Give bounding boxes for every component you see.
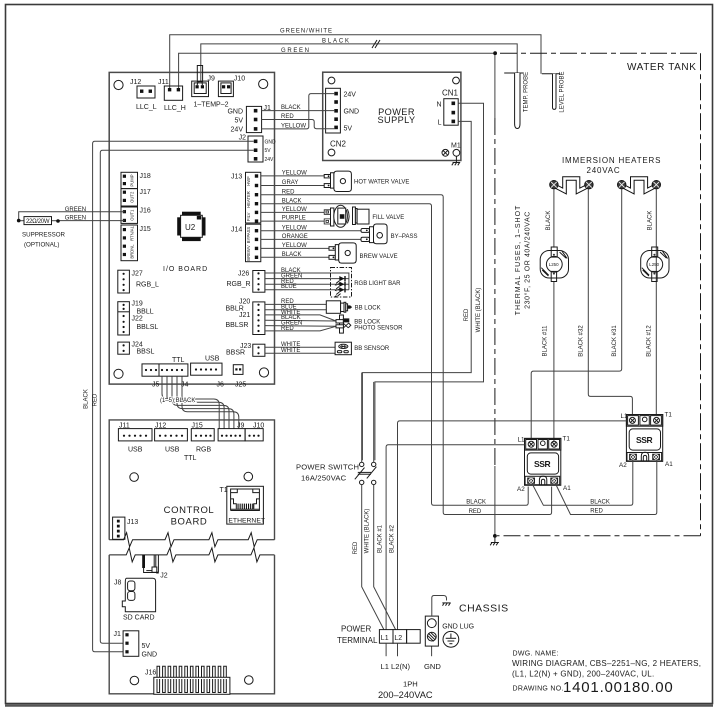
svg-text:BB SENSOR: BB SENSOR [354,346,390,352]
svg-text:J17: J17 [140,189,151,196]
svg-text:WHITE (BLACK): WHITE (BLACK) [476,288,482,333]
svg-text:GREEN: GREEN [281,48,309,54]
svg-text:BY–PASS: BY–PASS [391,234,418,240]
svg-text:GND: GND [424,662,441,671]
svg-text:L250: L250 [649,262,659,267]
svg-text:BLACK #11: BLACK #11 [542,325,548,357]
svg-text:A2: A2 [619,462,627,469]
svg-text:BLACK: BLACK [590,500,610,506]
svg-text:OUT2: OUT2 [130,191,135,203]
svg-text:BLACK #1: BLACK #1 [378,524,384,553]
svg-text:RGB: RGB [196,447,212,454]
svg-text:240VAC: 240VAC [587,166,621,175]
svg-text:5V: 5V [344,125,353,132]
svg-text:J21: J21 [239,312,250,319]
svg-text:YELLOW: YELLOW [282,225,307,231]
svg-text:DRAWING NO.: DRAWING NO. [513,686,564,693]
svg-text:U2: U2 [185,223,196,232]
svg-text:J5: J5 [152,382,160,389]
svg-text:PUMP: PUMP [130,174,135,186]
svg-text:GND: GND [344,109,360,116]
svg-text:24V: 24V [265,157,275,163]
svg-text:HOT WATER VALVE: HOT WATER VALVE [354,180,409,186]
svg-text:GREEN: GREEN [65,207,86,213]
svg-text:J19: J19 [132,301,143,308]
svg-text:RED: RED [281,114,294,120]
svg-text:J26: J26 [238,271,249,278]
svg-text:CN1: CN1 [442,89,459,98]
svg-text:SD CARD: SD CARD [123,615,155,622]
svg-text:HWF: HWF [246,176,251,186]
svg-text:RGB LIGHT BAR: RGB LIGHT BAR [354,281,401,287]
svg-text:J6: J6 [217,382,225,389]
svg-text:WATER TANK: WATER TANK [627,62,697,73]
svg-text:LEVEL PROBE: LEVEL PROBE [560,71,566,112]
svg-text:CHASSIS: CHASSIS [459,603,509,615]
svg-text:L: L [438,119,442,126]
svg-text:ORANGE: ORANGE [282,234,308,240]
svg-text:24V: 24V [344,91,357,98]
svg-text:RGB_R: RGB_R [227,281,251,288]
svg-text:RED: RED [93,393,99,406]
svg-text:RED: RED [281,326,294,332]
svg-text:16A/250VAC: 16A/250VAC [301,474,347,483]
svg-text:WHITE (BLACK): WHITE (BLACK) [364,509,370,554]
svg-text:GRAY: GRAY [282,180,299,186]
svg-text:BLACK: BLACK [466,500,486,506]
svg-text:TTL: TTL [184,455,197,462]
svg-text:GND: GND [142,651,158,658]
svg-text:FILL VALVE: FILL VALVE [372,215,404,221]
svg-text:PHOTO SENSOR: PHOTO SENSOR [354,326,403,332]
svg-text:BLACK #2: BLACK #2 [389,524,395,553]
svg-text:J25: J25 [235,382,246,389]
svg-text:YELLOW: YELLOW [281,123,306,129]
svg-text:L1: L1 [621,413,629,420]
svg-text:RED: RED [469,509,482,515]
svg-text:T1: T1 [665,412,673,419]
svg-text:BLACK #31: BLACK #31 [612,325,618,357]
svg-text:BBLSR: BBLSR [226,322,249,329]
svg-text:J8: J8 [114,580,122,587]
svg-text:J13: J13 [127,519,138,526]
svg-text:PURPLE: PURPLE [282,216,306,222]
svg-text:5V: 5V [265,148,272,154]
svg-text:J16: J16 [140,208,151,215]
svg-text:GREEN/WHITE: GREEN/WHITE [280,29,332,35]
svg-text:LLC_L: LLC_L [136,104,157,111]
svg-text:J27: J27 [132,271,143,278]
svg-text:USB: USB [128,447,143,454]
svg-text:BB LOCK: BB LOCK [355,306,381,312]
svg-text:RTN/AL: RTN/AL [130,225,135,240]
svg-text:WIRING DIAGRAM, CBS–2251–NG,: WIRING DIAGRAM, CBS–2251–NG, 2 HEATERS, [512,659,701,668]
svg-text:L1: L1 [518,437,526,444]
svg-text:(OPTIONAL): (OPTIONAL) [24,241,59,248]
svg-text:BLACK: BLACK [84,389,90,409]
svg-text:GND LUG: GND LUG [442,623,474,630]
svg-text:J10: J10 [234,76,245,83]
svg-text:SSR: SSR [534,459,551,469]
svg-text:24V: 24V [231,127,244,134]
svg-text:POWER SWITCH: POWER SWITCH [296,463,359,472]
svg-text:J24: J24 [132,342,143,349]
svg-text:OUT1: OUT1 [130,209,135,221]
svg-text:HEATER: HEATER [246,191,251,208]
svg-text:J1: J1 [114,631,122,638]
svg-text:1–TEMP–2: 1–TEMP–2 [194,102,229,109]
svg-text:A1: A1 [665,461,673,468]
svg-text:J11: J11 [158,79,169,86]
svg-text:200–240VAC: 200–240VAC [378,690,433,700]
svg-text:(1–5) BLACK: (1–5) BLACK [160,398,195,404]
svg-text:RED: RED [590,509,603,515]
svg-text:POWER: POWER [341,625,371,634]
svg-text:BBLSL: BBLSL [137,324,159,331]
svg-text:CN2: CN2 [330,140,347,149]
svg-text:RED: RED [282,189,295,195]
svg-text:TTL: TTL [172,357,185,364]
svg-text:WHITE: WHITE [281,348,300,354]
svg-text:USB: USB [165,447,180,454]
svg-text:L2: L2 [394,635,402,642]
svg-text:BLACK #12: BLACK #12 [647,325,653,357]
svg-text:GREEN: GREEN [65,215,86,221]
svg-text:M1: M1 [451,143,461,150]
svg-text:RED: RED [353,541,359,554]
svg-text:ETHERNET: ETHERNET [228,517,265,524]
svg-text:L250: L250 [549,262,559,267]
svg-text:J12: J12 [130,79,141,86]
svg-text:J2: J2 [160,573,168,580]
svg-text:1401.00180.00: 1401.00180.00 [563,679,674,696]
svg-text:BLUE: BLUE [281,284,297,290]
svg-text:FILV: FILV [246,212,251,221]
svg-text:YELLOW: YELLOW [282,207,307,213]
svg-text:BLACK #32: BLACK #32 [579,325,585,357]
svg-text:SSR: SSR [636,435,653,445]
svg-text:5V: 5V [234,118,243,125]
svg-text:22Ω/20W: 22Ω/20W [26,219,50,225]
svg-text:THERMAL FUSES, 1–SHOT: THERMAL FUSES, 1–SHOT [515,205,522,316]
svg-text:A2: A2 [517,486,525,493]
svg-text:RED: RED [464,308,470,321]
svg-text:DWG. NAME:: DWG. NAME: [513,651,559,658]
svg-text:N: N [436,101,441,108]
svg-text:(L1, L2(N) + GND), 200–240: (L1, L2(N) + GND), 200–240VAC, UL. [512,670,654,679]
svg-text:BLACK: BLACK [281,105,301,111]
svg-text:GND: GND [265,139,277,145]
svg-text:BLACK: BLACK [546,211,552,231]
svg-text:1PH: 1PH [403,680,418,689]
svg-text:J18: J18 [140,173,151,180]
svg-text:GND: GND [227,109,243,116]
svg-text:J22: J22 [132,316,143,323]
svg-text:BLACK: BLACK [282,252,302,258]
svg-text:T1: T1 [563,436,571,443]
svg-text:TEMP. PROBE: TEMP. PROBE [524,72,530,112]
svg-text:SUPPLY: SUPPLY [378,115,416,125]
svg-text:CONTROL: CONTROL [164,505,215,516]
svg-text:L1: L1 [381,635,389,642]
svg-text:YELLOW: YELLOW [282,243,307,249]
svg-text:L1 L2(N): L1 L2(N) [381,662,411,671]
svg-text:5V: 5V [142,643,151,650]
svg-text:J14: J14 [231,227,242,234]
svg-text:A1: A1 [563,485,571,492]
svg-text:J16: J16 [145,670,156,677]
svg-text:USB: USB [205,356,220,363]
svg-text:230°F, 25 OR 40A/240VAC: 230°F, 25 OR 40A/240VAC [524,211,532,309]
svg-text:YELLOW: YELLOW [282,171,307,177]
svg-text:LLC_H: LLC_H [164,105,186,112]
svg-text:BOARD: BOARD [171,516,208,527]
svg-text:BREWV: BREWV [246,245,251,261]
svg-text:I/O BOARD: I/O BOARD [163,266,208,273]
svg-text:RGB_L: RGB_L [136,282,159,289]
svg-text:J20: J20 [239,299,250,306]
svg-text:BLACK: BLACK [282,198,302,204]
svg-text:BBSR: BBSR [226,350,245,357]
svg-text:BRDNL: BRDNL [130,244,135,259]
svg-text:BBLL: BBLL [137,309,154,316]
svg-text:BBSL: BBSL [137,349,155,356]
svg-text:J13: J13 [231,174,242,181]
svg-text:IMMERSION HEATERS: IMMERSION HEATERS [562,156,661,165]
svg-text:BREW VALVE: BREW VALVE [360,254,398,260]
svg-text:BYPASS: BYPASS [246,227,251,244]
svg-text:SUPPRESSOR: SUPPRESSOR [22,231,66,238]
svg-text:TERMINAL: TERMINAL [337,636,378,645]
svg-text:J2: J2 [239,135,247,142]
svg-text:J15: J15 [140,226,151,233]
svg-text:BLACK: BLACK [648,211,654,231]
